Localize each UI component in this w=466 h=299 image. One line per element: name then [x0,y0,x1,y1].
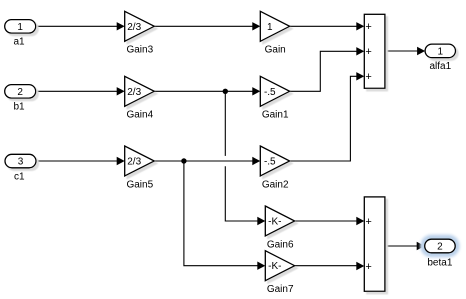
svg-text:-.5: -.5 [264,157,276,168]
svg-text:3: 3 [18,157,24,168]
svg-text:+: + [365,46,371,58]
svg-text:2: 2 [437,242,443,253]
svg-text:1: 1 [438,47,444,58]
svg-text:Gain: Gain [265,45,286,56]
svg-text:1: 1 [17,22,23,33]
svg-text:+: + [365,71,371,83]
svg-text:beta1: beta1 [427,257,452,268]
svg-text:1: 1 [267,22,273,33]
svg-text:b1: b1 [13,102,25,113]
svg-text:Gain7: Gain7 [267,284,294,295]
svg-text:Gain6: Gain6 [267,239,294,250]
svg-text:a1: a1 [13,37,25,48]
svg-text:alfa1: alfa1 [429,61,451,72]
svg-text:2/3: 2/3 [127,87,141,98]
svg-text:Gain3: Gain3 [126,45,153,56]
svg-text:-.5: -.5 [264,87,276,98]
svg-text:Gain2: Gain2 [262,179,289,190]
svg-text:+: + [365,216,371,228]
svg-text:Gain1: Gain1 [262,110,289,121]
svg-text:2/3: 2/3 [127,22,141,33]
svg-text:2/3: 2/3 [127,157,141,168]
svg-text:-K-: -K- [268,261,281,272]
svg-text:c1: c1 [14,171,25,182]
svg-text:+: + [365,21,371,33]
svg-text:2: 2 [17,87,23,98]
svg-text:Gain5: Gain5 [126,179,153,190]
svg-text:Gain4: Gain4 [126,110,153,121]
svg-text:+: + [365,261,371,273]
svg-text:-K-: -K- [268,217,281,228]
